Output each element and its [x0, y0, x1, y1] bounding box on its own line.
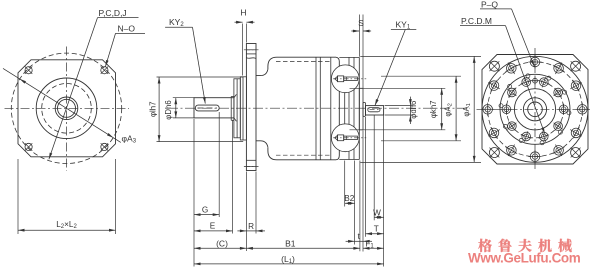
leader P,C,D,J — [49, 18, 98, 160]
svg-text:P.C.D.M: P.C.D.M — [461, 16, 492, 26]
right view inner bolt hole 2 — [554, 88, 563, 97]
output flange bottom lug — [331, 124, 359, 152]
dimension B2 — [345, 202, 355, 204]
right view mid circle — [500, 74, 570, 144]
dimension G — [194, 214, 219, 216]
svg-text:E: E — [210, 222, 216, 231]
right view inner bolt hole 7 — [508, 122, 517, 131]
right view small pin hole 6 — [503, 124, 507, 128]
svg-text:φdh6: φdh6 — [409, 101, 418, 119]
middle view main centerline — [168, 107, 470, 109]
right view outer bolt hole 2 — [554, 64, 564, 74]
leader N-O — [105, 33, 115, 66]
right view small pin hole 5 — [499, 104, 503, 108]
svg-text:H: H — [240, 8, 246, 18]
right view top-right corner hole — [571, 61, 581, 71]
left view top-right bolt hole — [101, 67, 108, 74]
ring gear joint lines (clipped around lugs) — [348, 57, 350, 65]
left view bottom-right bolt hole — [101, 143, 108, 150]
right view inner bolt circle dashed P.C.D.M — [506, 81, 563, 138]
right view inner top small hole — [533, 78, 538, 83]
right view outer bolt hole 1 — [530, 57, 540, 67]
svg-text:(C): (C) — [216, 238, 228, 248]
right view centerline horizontal — [477, 108, 590, 110]
svg-text:Www.GeLufu.Com: Www.GeLufu.Com — [468, 251, 581, 266]
right view bottom-right corner hole — [571, 148, 581, 158]
right view top-left corner hole — [489, 61, 499, 71]
right view inner bolt hole 6 — [502, 105, 511, 114]
right view small pin hole 4 — [508, 84, 512, 88]
dimension phi-lh7 — [157, 76, 244, 78]
leader KY2 — [193, 27, 206, 103]
right view flange outline — [482, 55, 588, 165]
right view pilot circle phikh7 — [514, 89, 555, 130]
right view hub circle — [523, 98, 546, 121]
right view inner bolt hole 9 — [540, 132, 549, 141]
input shaft keyway KY2 slot — [195, 105, 219, 111]
left view inner dashed circle — [42, 84, 92, 134]
right view centerline vertical — [534, 48, 536, 171]
left view shaft hole inner circle — [58, 99, 76, 117]
gearbox body outline — [268, 57, 339, 160]
right view inner bolt hole 10 — [554, 122, 563, 131]
output flange top lug — [331, 65, 359, 93]
svg-text:φDh6: φDh6 — [164, 100, 173, 119]
right view small pin hole 9 — [558, 130, 562, 134]
dimension C — [194, 247, 246, 249]
input shaft collar — [230, 97, 232, 121]
left view square flange outline — [18, 60, 116, 157]
right view small pin hole 1 — [563, 90, 567, 94]
right view outer bolt circle dashed — [488, 62, 583, 157]
dimension R — [246, 230, 256, 232]
right view outer bolt hole 11 — [489, 81, 499, 91]
right view inner bolt hole 1 — [559, 105, 568, 114]
dimension B1 — [246, 247, 360, 249]
left view centerline horizontal — [5, 107, 130, 109]
input pilot ring phi-lh7 — [240, 77, 246, 140]
svg-text:(L1): (L1) — [281, 254, 295, 265]
right view outer bolt hole 6 — [554, 146, 564, 156]
body hidden lines — [276, 60, 331, 62]
right view small pin hole 8 — [540, 141, 544, 145]
left view boss circle — [36, 78, 97, 139]
flange OD bottom edge — [339, 159, 359, 161]
right view small pin hole 2 — [547, 76, 551, 80]
body joint lines — [315, 57, 317, 160]
output hub ring — [363, 102, 366, 116]
left view shaft hole outer circle — [55, 97, 78, 120]
right view outer bolt hole 4 — [578, 105, 588, 115]
output pilot ring phi-kh7 — [359, 88, 363, 130]
right view outer circle phiA1 — [482, 56, 588, 162]
diameter leader phiA3 — [3, 68, 121, 142]
top lug screw — [338, 76, 344, 82]
dimension L1 — [194, 263, 384, 265]
output flange right face — [358, 57, 360, 159]
right view outer bolt hole 9 — [489, 128, 499, 138]
right view outer bolt hole 10 — [483, 105, 493, 115]
svg-text:φlh7: φlh7 — [149, 102, 158, 117]
output shaft stub — [366, 106, 384, 115]
svg-text:N–O: N–O — [118, 24, 136, 34]
left view centerline vertical — [66, 47, 68, 171]
dimension F1 — [363, 247, 384, 249]
svg-text:B2: B2 — [344, 194, 354, 203]
neck between flange and body — [256, 69, 268, 75]
right view shaft circle — [528, 102, 543, 117]
flange OD top edge — [339, 56, 359, 58]
left view bottom-left bolt hole — [25, 143, 32, 150]
watermark chinese text — [478, 239, 572, 252]
dimension W — [374, 216, 383, 218]
svg-text:R: R — [248, 222, 254, 231]
dimension L2xL2 — [17, 159, 19, 234]
leader P.C.D.M — [506, 26, 545, 134]
right view inner bolt hole 4 — [522, 78, 531, 87]
dimension phi-A1 — [360, 55, 481, 57]
svg-text:B1: B1 — [285, 238, 296, 248]
right view outer bolt hole 8 — [507, 146, 517, 156]
leader KY1 — [375, 30, 405, 106]
dimension phi-dh6 — [385, 105, 413, 107]
svg-text:P–Q: P–Q — [481, 0, 498, 9]
flange bottom bolt hole section — [246, 159, 256, 161]
right view outer bolt hole 5 — [571, 128, 581, 138]
svg-text:T: T — [374, 225, 379, 234]
output keyway KY1 slot — [368, 108, 380, 112]
dimension phi-A2 — [381, 75, 461, 77]
right view inner bolt hole 5 — [508, 88, 517, 97]
right view small pin hole 3 — [526, 74, 530, 78]
dimension t — [355, 240, 363, 242]
right view outer bolt hole 12 — [507, 64, 517, 74]
svg-text:W: W — [373, 208, 381, 217]
right view outer bolt hole 3 — [571, 81, 581, 91]
input bearing boss — [234, 79, 240, 138]
svg-text:G: G — [202, 205, 208, 214]
input flange plate — [246, 44, 256, 171]
leader P-Q — [512, 9, 535, 67]
input shaft — [194, 98, 234, 118]
svg-text:P,C,D,J: P,C,D,J — [99, 8, 127, 18]
svg-text:φkh7: φkh7 — [429, 100, 438, 118]
right view small pin hole 7 — [519, 139, 523, 143]
left view bolt circle dashed (PCD J) — [11, 53, 121, 163]
right view inner bolt hole 3 — [540, 78, 549, 87]
bottom lug screw — [338, 135, 344, 141]
right view inner bolt hole 8 — [522, 132, 531, 141]
extension lines bottom right — [344, 161, 346, 207]
flange top bolt hole section — [246, 53, 256, 55]
right view bottom-left corner hole — [489, 148, 499, 158]
right view outer bolt hole 7 — [530, 152, 540, 162]
left view top-left bolt hole — [25, 67, 32, 74]
extension lines bottom left — [193, 119, 195, 267]
dimension phi-Dh6 — [173, 97, 195, 99]
dimension phi-kh7 — [350, 87, 446, 89]
dimension E — [194, 230, 233, 232]
right view small pin hole 10 — [567, 111, 571, 115]
input shaft chamfer — [234, 94, 237, 97]
dimension T — [366, 233, 384, 235]
